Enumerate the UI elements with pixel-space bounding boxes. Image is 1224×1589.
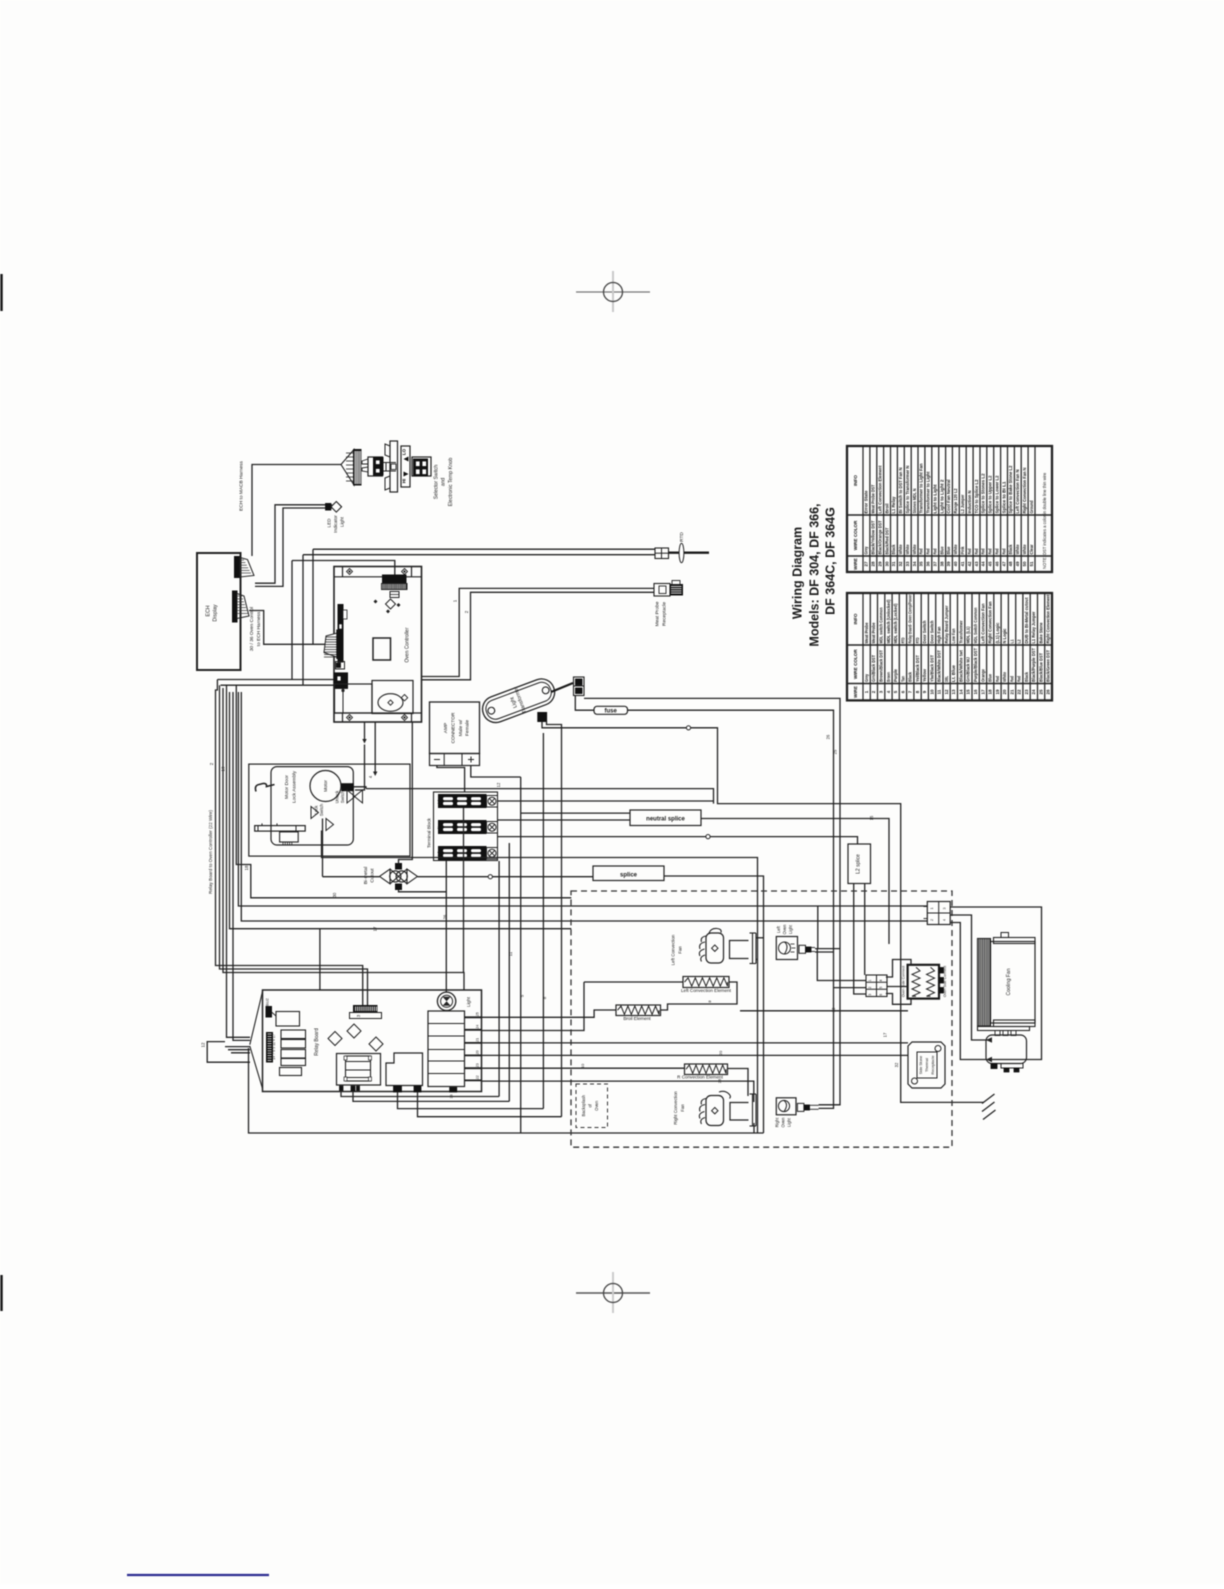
svg-text:Red: Red (1001, 548, 1006, 554)
svg-text:White: White (953, 544, 958, 555)
svg-text:Electronic Temp Knob: Electronic Temp Knob (448, 458, 454, 507)
svg-text:43: 43 (974, 561, 979, 567)
svg-text:32: 32 (898, 561, 903, 567)
connector: relay top (hatched) (354, 1006, 378, 1013)
svg-text:L2: L2 (437, 851, 441, 855)
svg-text:Red: Red (995, 676, 1000, 682)
wire: T1 pin2 to h1101 (353, 1091, 509, 1101)
svg-text:33: 33 (905, 561, 910, 567)
wire: connector to left/right light feed (584, 698, 840, 1104)
svg-text:4: 4 (943, 919, 947, 921)
bus v229 short (230, 692, 572, 929)
mount diamond c (369, 1037, 383, 1051)
wire pair: LED to oven controller (255, 505, 332, 583)
registration mark bottom (576, 1272, 650, 1313)
svg-text:6: 6 (879, 994, 883, 996)
buzzer box (372, 681, 413, 714)
svg-text:Stones MDL N: Stones MDL N (912, 489, 917, 514)
fan motor (986, 1035, 1027, 1064)
svg-text:Oven: Oven (782, 924, 787, 935)
door latch hook (255, 783, 274, 791)
svg-text:Yel/Black DST: Yel/Black DST (915, 655, 920, 682)
bus v215 wire 2 (216, 680, 363, 1006)
svg-text:22: 22 (476, 1075, 480, 1079)
svg-text:Light to Light 2: Light to Light 2 (939, 479, 944, 514)
svg-text:Error State: Error State (864, 490, 869, 514)
svg-text:Red: Red (988, 548, 993, 554)
svg-text:42: 42 (967, 561, 972, 567)
T1 pins (340, 1086, 344, 1091)
svg-text:Black: Black (891, 544, 896, 555)
L2 splice box (848, 844, 871, 884)
svg-text:MDL (L1): MDL (L1) (966, 626, 971, 644)
oven controller board (334, 567, 422, 723)
bus wire v313 (312, 549, 314, 644)
svg-text:White: White (1002, 671, 1007, 682)
svg-text:ECH to MACB Harness: ECH to MACB Harness (239, 460, 245, 510)
svg-text:38: 38 (939, 561, 944, 567)
wire h1010 (740, 1010, 908, 1012)
svg-text:Black: Black (908, 671, 913, 682)
svg-text:Black: Black (1008, 544, 1013, 555)
svg-text:N: N (437, 826, 441, 829)
svg-text:Right Convection Element: Right Convection Element (1046, 594, 1051, 644)
svg-text:L1: L1 (437, 799, 441, 803)
svg-text:Splice to Stones L2: Splice to Stones L2 (981, 473, 986, 514)
motor door lock assembly outer box (249, 764, 410, 856)
svg-text:LO: LO (402, 448, 407, 455)
svg-text:L2 Jumper: L2 Jumper (960, 494, 965, 513)
latch solenoid box (280, 832, 299, 842)
svg-text:Black/Orange DST: Black/Orange DST (877, 520, 882, 554)
wire: terminal row1 down to relay feed (463, 808, 465, 973)
relay board edge connector (267, 1033, 273, 1063)
small box on left edge (336, 662, 345, 670)
wire: selector switch to ECH harness (252, 465, 341, 557)
latch bar (255, 826, 306, 832)
svg-text:Thermal: Thermal (925, 1058, 929, 1072)
svg-text:Door Switch: Door Switch (922, 620, 927, 643)
svg-text:Right Convection: Right Convection (673, 1091, 678, 1125)
svg-text:24: 24 (476, 1025, 480, 1029)
svg-text:17: 17 (883, 1032, 888, 1037)
wire: lock switch to center bus (322, 831, 758, 1134)
svg-text:Relay Board Jumper: Relay Board Jumper (944, 605, 949, 643)
wire 12 loop (207, 1042, 250, 1063)
wire: AMP pin right down (471, 766, 521, 778)
svg-text:17: 17 (980, 689, 985, 695)
svg-text:34: 34 (912, 561, 917, 567)
knob face plate (401, 446, 410, 487)
svg-text:Light: Light (788, 924, 793, 934)
margin tick upper-left (0, 274, 3, 311)
wire: L2 splice down pair (854, 884, 866, 995)
wire: left light taps (815, 948, 840, 950)
svg-text:3: 3 (868, 994, 872, 996)
vertical v499 (498, 861, 500, 1097)
svg-text:12: 12 (496, 782, 501, 787)
svg-text:White: White (1015, 544, 1020, 555)
svg-text:Range 120 L2: Range 120 L2 (953, 488, 958, 514)
svg-text:L1: L1 (1009, 639, 1014, 643)
svg-text:RTD: RTD (679, 532, 685, 542)
svg-text:L1 Relay: L1 Relay (891, 496, 896, 514)
svg-text:10: 10 (929, 689, 934, 695)
wire: lock switch to bi-metal (322, 819, 324, 877)
relay K3 (281, 1040, 306, 1049)
svg-text:1: 1 (930, 908, 934, 910)
wire: controller ribbon feed (292, 561, 395, 576)
selector switch body (368, 457, 383, 476)
svg-text:Induction N: Induction N (967, 491, 972, 514)
svg-text:12: 12 (944, 689, 949, 695)
svg-text:49: 49 (1015, 561, 1020, 567)
svg-text:Tan: Tan (900, 676, 905, 682)
light transformer (479, 675, 559, 726)
svg-text:14 7 6 5 11 4 17: 14 7 6 5 11 4 17 (272, 1034, 276, 1060)
svg-text:Bi-metal: Bi-metal (363, 867, 369, 885)
wire: splice to center bus (664, 876, 764, 1133)
svg-text:Low Fan: Low Fan (951, 628, 956, 643)
svg-text:Black/White twt: Black/White twt (958, 649, 963, 682)
svg-text:Black: Black (1024, 671, 1029, 682)
wire: relay line 23 to R convection element (482, 1067, 685, 1069)
wire: tap down to relay board (319, 929, 321, 990)
svg-text:Meat Probe: Meat Probe (871, 622, 876, 644)
wire: relay line 20 to receptacle (482, 1054, 909, 1056)
svg-text:Cool Fan Neutral: Cool Fan Neutral (946, 480, 951, 514)
wire: fuse right to right oven light (628, 710, 834, 1108)
buzzer (378, 694, 403, 712)
svg-text:15: 15 (869, 815, 874, 820)
right fan fins (699, 1099, 706, 1125)
ground (chassis) (982, 1094, 996, 1120)
grid connector 2x3 (866, 975, 887, 997)
dashed oven box (571, 891, 952, 1147)
wire: K7 pin2 to h1116 (418, 1092, 562, 1117)
connector: ECH top ribbon (235, 557, 241, 578)
svg-text:Switch: Switch (340, 790, 345, 803)
motor connector (342, 784, 354, 791)
svg-text:MDL switch Common: MDL switch Common (879, 607, 884, 643)
fan bottom cap (994, 1020, 1036, 1027)
svg-text:DBL: DBL (944, 676, 949, 682)
svg-text:Splice to Upper L2: Splice to Upper L2 (988, 475, 993, 514)
svg-text:LED: LED (327, 518, 332, 528)
RTD probe connector (655, 548, 669, 559)
wire: relay line 22 to right fan (482, 1081, 754, 1102)
connector: transformer to fuse (574, 677, 585, 696)
relay K7 (stepped) (386, 1053, 423, 1086)
wire table 2 (wires 27-51) (847, 446, 1052, 572)
svg-text:Splice to Lower L2: Splice to Lower L2 (994, 475, 999, 514)
svg-text:MDL Switch Common: MDL Switch Common (973, 607, 978, 643)
fan top cap (994, 938, 1036, 944)
svg-text:White: White (912, 544, 917, 555)
svg-text:Grn/Black MJ: Grn/Black MJ (966, 656, 971, 682)
svg-text:51: 51 (1029, 561, 1034, 567)
ECH display board (197, 553, 241, 670)
block pins (939, 968, 944, 974)
vertical v543 (542, 733, 544, 1109)
svg-text:30: 30 (332, 892, 337, 897)
svg-text:32: 32 (894, 1062, 899, 1067)
wire: RTD line A (313, 548, 655, 550)
oven light (on relay board) (437, 992, 455, 1010)
svg-text:22: 22 (1017, 689, 1022, 695)
svg-text:Purple: Purple (893, 668, 898, 682)
svg-text:50: 50 (1022, 561, 1027, 567)
svg-text:Black/Yellow DST: Black/Yellow DST (871, 520, 876, 554)
left light connector (799, 945, 806, 953)
svg-text:Left Convection Fan N: Left Convection Fan N (1015, 470, 1020, 514)
wire: K7 pin to h1108 (398, 1092, 544, 1109)
temp knob body (412, 457, 431, 476)
svg-text:44: 44 (981, 561, 986, 567)
svg-text:Lock: Lock (314, 805, 319, 815)
left convection element (683, 977, 729, 988)
relay K6 (280, 1068, 302, 1076)
broil element (616, 1005, 661, 1016)
svg-text:2: 2 (868, 987, 872, 989)
svg-text:fuse: fuse (605, 708, 618, 714)
svg-text:White: White (1022, 544, 1027, 555)
lock switch (311, 807, 334, 831)
relay K4 (281, 1050, 306, 1059)
connector: controller ribbon checker (382, 584, 408, 590)
wire: plug to light tap (817, 906, 819, 949)
bus wire ECH lower h679 (217, 679, 334, 681)
mount hole TL (347, 569, 353, 575)
wire: Z1 right to Z2 chain (661, 982, 738, 1010)
svg-text:4: 4 (879, 979, 883, 981)
svg-text:High Fan: High Fan (937, 626, 942, 643)
svg-text:Grey: Grey (864, 546, 869, 554)
svg-text:5: 5 (879, 987, 883, 989)
svg-text:Bake Stone: Bake Stone (1038, 622, 1043, 644)
svg-text:Light: Light (787, 1117, 792, 1127)
connector: controller lower-left (dark) (334, 673, 348, 689)
relay board bottom pin (450, 1088, 457, 1093)
svg-text:Red: Red (967, 548, 972, 554)
svg-text:Left Convection: Left Convection (671, 934, 676, 965)
svg-text:Models: DF 304, DF 366,: Models: DF 304, DF 366, (808, 503, 822, 646)
svg-text:Backsplash: Backsplash (581, 1094, 586, 1116)
svg-text:Broil Element: Broil Element (623, 1016, 651, 1021)
svg-text:Blue: Blue (946, 546, 951, 555)
wire: 30/36 harness to oven controller (249, 611, 326, 645)
wire: T1 pin to h1096 (341, 1091, 499, 1097)
svg-text:Right Convection Fan: Right Convection Fan (988, 601, 993, 643)
svg-text:White: White (898, 544, 903, 555)
svg-text:L2: L2 (1017, 639, 1022, 643)
motor door lock inner box (271, 767, 353, 845)
svg-text:27: 27 (864, 561, 869, 567)
wire: fuse left lead (575, 696, 594, 711)
svg-text:Splice to BI L1: Splice to BI L1 (1001, 481, 1006, 514)
svg-text:Right Convection Fan N: Right Convection Fan N (1022, 468, 1027, 514)
fan bracket (752, 933, 754, 964)
vertical v561 transformer neutral (547, 722, 562, 1117)
svg-text:CONNECTOR: CONNECTOR (451, 712, 457, 743)
wire: relay line 21 to receptacle (482, 1042, 909, 1044)
motor M (310, 771, 341, 802)
oven side element connect block (908, 965, 939, 999)
connector: ECH lower ribbon (233, 591, 238, 622)
junction node (686, 726, 690, 730)
wire: bi-metal left (323, 876, 380, 878)
svg-text:AMP: AMP (443, 723, 449, 733)
svg-text:Motor: Motor (323, 780, 328, 792)
svg-text:Switch: Switch (319, 803, 324, 816)
svg-text:23: 23 (476, 1063, 480, 1067)
svg-text:Lt. Blue: Lt. Blue (951, 664, 956, 682)
svg-text:31: 31 (891, 561, 896, 567)
terminal screw 3 (487, 848, 498, 860)
selector switch pins (362, 459, 368, 464)
right fan duct (730, 1103, 749, 1121)
svg-text:39: 39 (946, 561, 951, 567)
svg-text:Meat Probe DST: Meat Probe DST (871, 484, 876, 513)
terminal row 1 (439, 795, 487, 808)
bus wire v292 (291, 561, 293, 680)
svg-text:28: 28 (871, 561, 876, 567)
svg-text:Cooling Fan: Cooling Fan (1006, 968, 1012, 995)
cooling fan body (991, 942, 1036, 1024)
svg-text:30: 30 (884, 561, 889, 567)
svg-text:Splice to Transformer N: Splice to Transformer N (905, 466, 910, 514)
svg-text:RTD: RTD (900, 638, 905, 644)
svg-text:Selector Switch: Selector Switch (434, 465, 440, 500)
svg-text:Left Convection Fan: Left Convection Fan (980, 603, 985, 643)
motor top pins (995, 1031, 1000, 1036)
wire: grid to block top loop (886, 960, 911, 978)
svg-text:(L1) Logic: (L1) Logic (995, 622, 1000, 644)
svg-text:15: 15 (966, 689, 971, 695)
svg-text:Broil: Broil (884, 504, 889, 514)
svg-text:46: 46 (994, 561, 999, 567)
svg-text:Oven: Oven (781, 1117, 786, 1128)
wire: light pair tap to grid r2 (834, 987, 867, 989)
svg-text:Fan: Fan (680, 1104, 685, 1112)
svg-text:Left Convection Element: Left Convection Element (681, 988, 732, 993)
wire: plug to cooling fan loop (950, 907, 1041, 1060)
right convection fan motor (706, 1096, 724, 1126)
svg-text:Ylw/Black DST: Ylw/Black DST (929, 655, 934, 682)
svg-text:Black/Purple DST: Black/Purple DST (1031, 648, 1036, 682)
svg-text:45: 45 (988, 561, 993, 567)
right light connector (797, 1103, 804, 1111)
connector: ribbon wedge from ECH (324, 632, 341, 659)
svg-text:Indicator: Indicator (333, 515, 338, 533)
svg-text:Red: Red (981, 548, 986, 554)
svg-text:Light to Light: Light to Light (933, 484, 938, 514)
relay board (263, 990, 482, 1092)
footer rule (blue) (127, 1574, 269, 1576)
svg-text:Red: Red (933, 548, 938, 554)
wire: AMP to terminal block (437, 766, 465, 793)
svg-text:and: and (441, 478, 447, 487)
svg-text:Oven: Oven (594, 1100, 599, 1111)
wire h813 (521, 812, 630, 814)
wire: terminal row1 right (498, 800, 714, 802)
meat probe receptacle (654, 584, 670, 597)
AMP connector pin strip (430, 754, 480, 766)
terminal screw 2 (487, 822, 498, 834)
door plug connector 2x2 (927, 902, 950, 925)
wire: relay line 24 to left convection element (482, 982, 585, 1031)
wire: bi-metal right to splice (418, 876, 594, 878)
svg-text:HI: HI (402, 479, 407, 484)
left oven light (776, 937, 797, 960)
svg-text:16: 16 (973, 689, 978, 695)
wire: meat probe receptacle pair (422, 588, 655, 676)
bus v238 to door plug (238, 692, 927, 906)
svg-text:Oven Side Connect: Oven Side Connect (902, 966, 906, 997)
relay board wedge (250, 992, 263, 1045)
mount hole BL (347, 715, 353, 721)
svg-text:23: 23 (1024, 689, 1029, 695)
svg-text:neutral splice: neutral splice (646, 816, 685, 822)
svg-text:19: 19 (221, 766, 226, 772)
svg-text:Left Convection Element: Left Convection Element (877, 465, 882, 514)
svg-text:splice: splice (620, 872, 638, 878)
wire: RTD line B (303, 554, 655, 556)
svg-text:Motor Door: Motor Door (284, 775, 290, 799)
svg-text:Fan: Fan (678, 946, 683, 954)
svg-text:Terminal Block: Terminal Block (427, 817, 432, 848)
motor bottom pins (991, 1064, 997, 1069)
wire: grid to element block mid (887, 986, 908, 988)
svg-text:20: 20 (718, 1050, 723, 1055)
mount diamond b (347, 1024, 361, 1038)
svg-text:25: 25 (476, 1012, 480, 1016)
wire: controller to assembly (arrow2) (374, 722, 376, 772)
margin tick lower-left (0, 1275, 3, 1311)
svg-text:L1 Relay Jumper: L1 Relay Jumper (1031, 611, 1036, 643)
svg-text:Transformer to Light Fan: Transformer to Light Fan (919, 463, 924, 513)
K7 pins (394, 1086, 402, 1092)
registration mark top (576, 271, 650, 312)
svg-text:1: 1 (868, 979, 872, 981)
svg-text:DF 364C, DF 364G: DF 364C, DF 364G (824, 507, 838, 615)
svg-text:Grey: Grey (864, 674, 869, 682)
svg-text:Lock Assembly: Lock Assembly (292, 770, 298, 803)
svg-text:Right: Right (775, 1117, 780, 1128)
svg-text:24: 24 (1031, 689, 1036, 695)
svg-text:2: 2 (930, 919, 934, 921)
svg-text:18: 18 (244, 865, 249, 871)
bus v236 wire 18 jog (236, 685, 571, 898)
svg-text:Black/Red DST: Black/Red DST (884, 527, 889, 554)
transformer lead (thick) (551, 683, 573, 692)
pin stub below connector (342, 689, 344, 714)
switch stack column (428, 1011, 465, 1087)
svg-text:Relay Board- Oven Comp/Power: Relay Board- Oven Comp/Power (908, 594, 913, 643)
svg-text:20: 20 (1002, 689, 1007, 695)
svg-text:Meat Probe: Meat Probe (864, 622, 869, 644)
wire: light tap down to grid (817, 949, 866, 981)
svg-text:Transformer: Transformer (958, 620, 963, 643)
svg-text:INFO: INFO (853, 475, 858, 486)
svg-text:47: 47 (1001, 561, 1006, 567)
svg-text:29: 29 (877, 561, 882, 567)
wire: left fan to bus (756, 937, 764, 939)
left convection fan motor (706, 933, 724, 963)
wire: relay line 25 to broil element (482, 1010, 617, 1017)
svg-text:Pink: Pink (960, 546, 965, 555)
connector: controller left edge (dark bar) (338, 605, 343, 663)
